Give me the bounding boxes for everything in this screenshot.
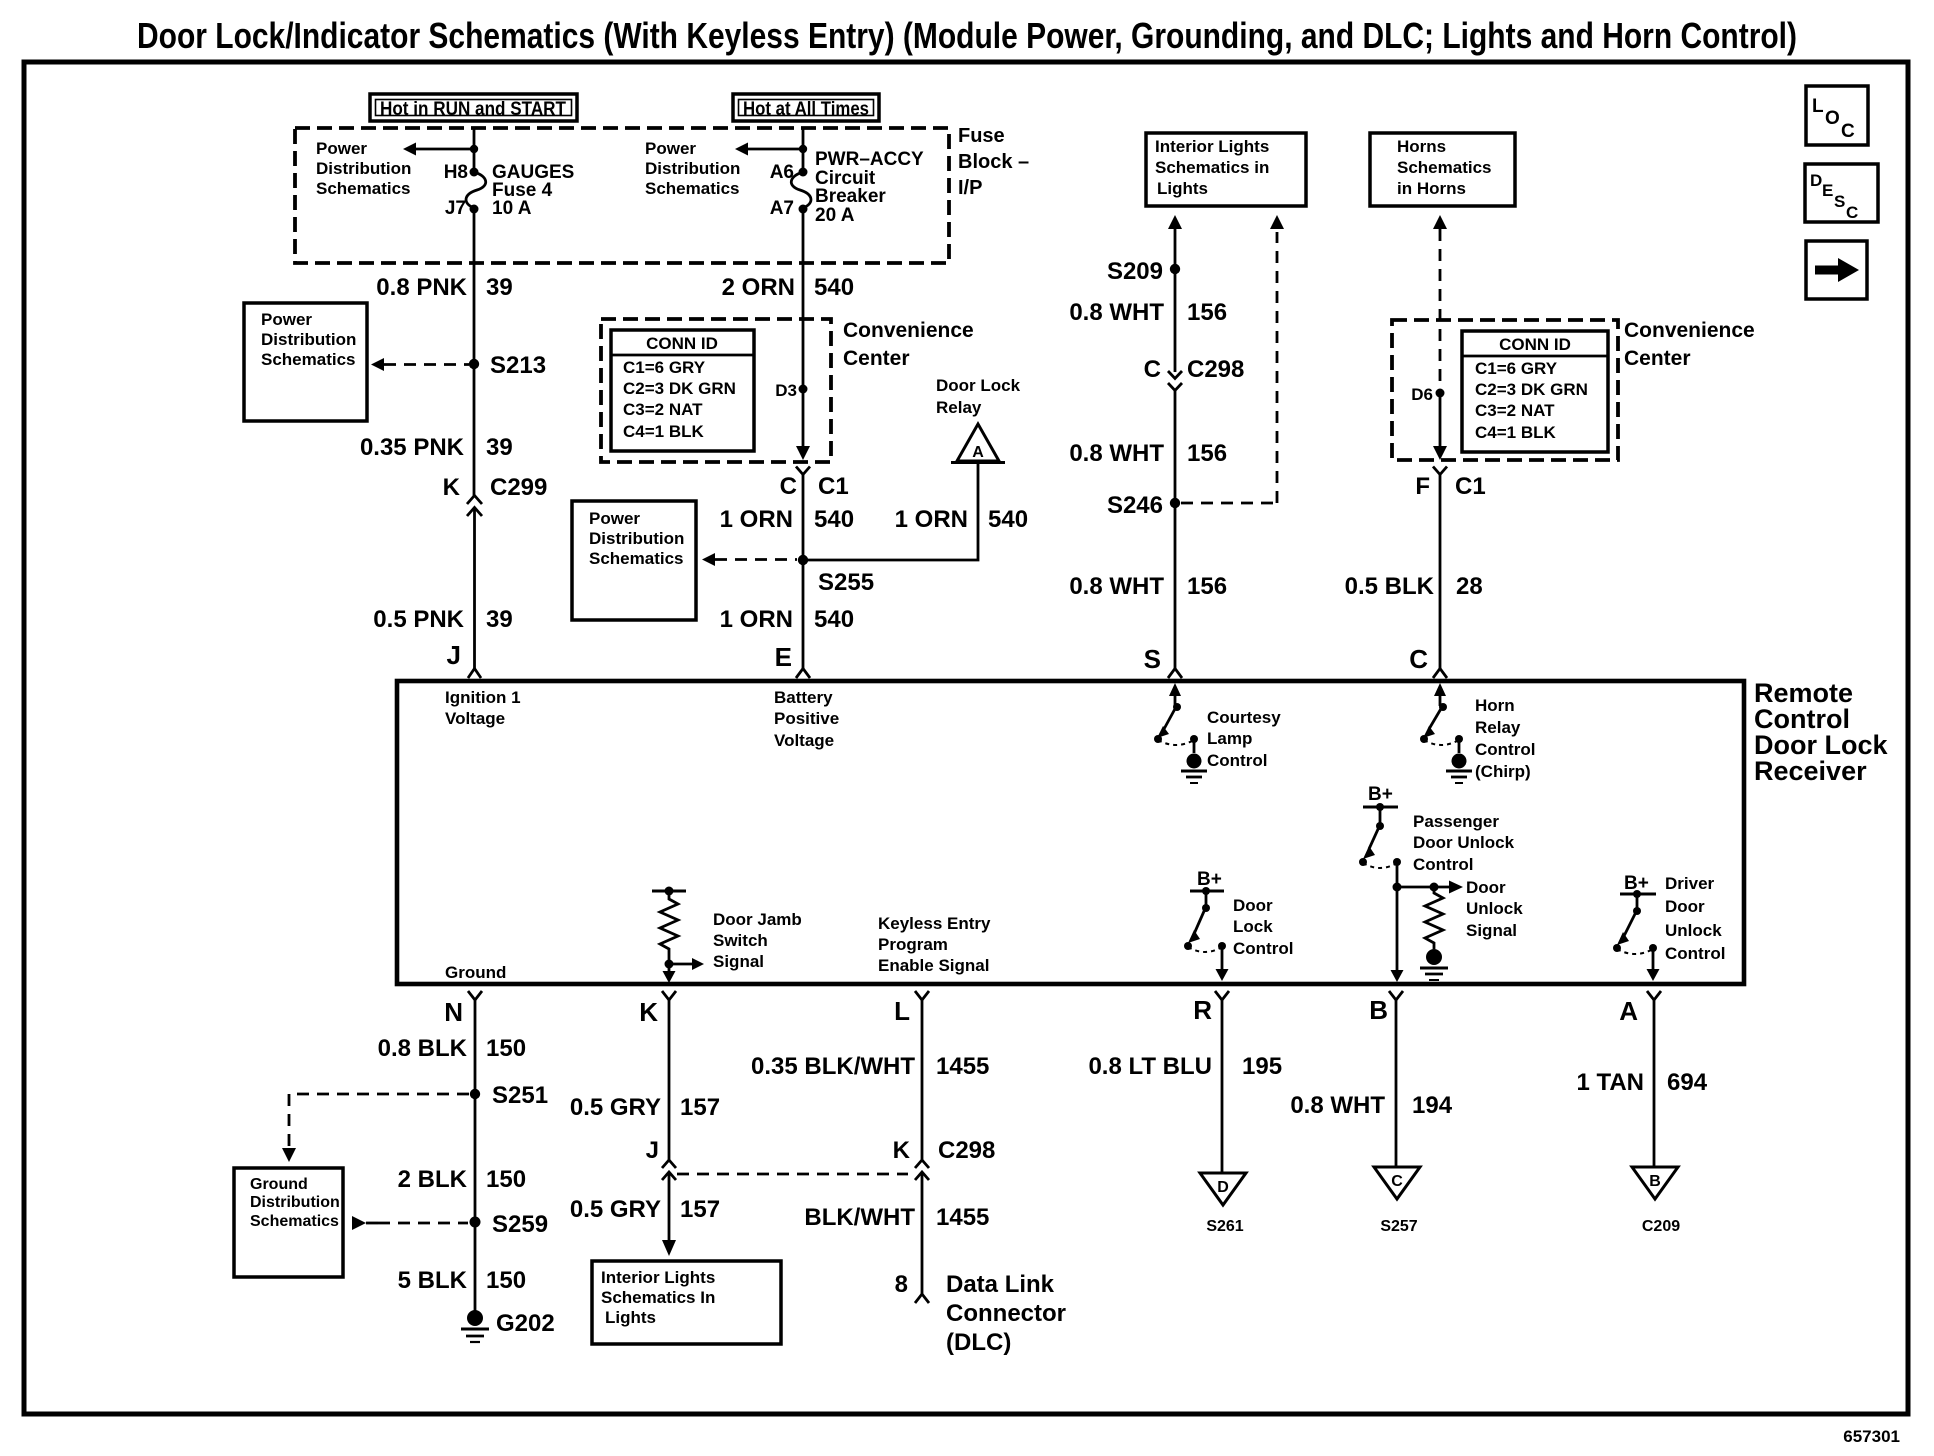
arrow up into horns box (1433, 215, 1447, 229)
svg-text:Control: Control (1207, 751, 1267, 770)
svg-text:S246: S246 (1107, 492, 1163, 519)
dashed link J to K C298 (677, 1173, 908, 1176)
receiver pin L fork (894, 991, 929, 1026)
svg-text:1 TAN: 1 TAN (1576, 1069, 1644, 1096)
connector pin J (lower) (646, 1137, 676, 1180)
svg-text:A: A (972, 444, 984, 461)
svg-text:Ground: Ground (250, 1176, 308, 1193)
ground G202 (461, 1310, 555, 1342)
door jamb switch pull-up and resistor (652, 887, 704, 984)
svg-text:CONN ID: CONN ID (646, 334, 718, 353)
LOC icon box (1806, 86, 1868, 145)
off-page triangle B (C209) (1632, 1167, 1680, 1235)
courtesy lamp control switch (1154, 683, 1198, 753)
svg-text:Hot in RUN and START: Hot in RUN and START (380, 99, 566, 120)
svg-text:H8: H8 (444, 162, 468, 183)
driver door unlock control text (1665, 874, 1725, 963)
svg-text:Ignition 1: Ignition 1 (445, 688, 521, 707)
connector C299 pin K (443, 474, 548, 516)
svg-text:C209: C209 (1642, 1218, 1680, 1235)
svg-text:Door: Door (1466, 878, 1506, 897)
svg-text:C3=2 NAT: C3=2 NAT (623, 400, 703, 419)
svg-text:156: 156 (1187, 299, 1227, 326)
svg-text:K: K (893, 1137, 911, 1164)
dashed wire horns box to D6 (1439, 229, 1442, 389)
svg-text:195: 195 (1242, 1053, 1282, 1080)
svg-text:G202: G202 (496, 1310, 555, 1337)
svg-text:657301: 657301 (1843, 1427, 1900, 1446)
svg-text:Signal: Signal (1466, 921, 1517, 940)
svg-text:R: R (1193, 995, 1212, 1025)
ground (horn relay) (1446, 754, 1472, 784)
Interior Lights Schematics In Lights box (bottom) (592, 1261, 781, 1344)
label 0.8 WHT 156 (2) (1069, 440, 1227, 467)
dashed arrow S255 to power distribution box (702, 553, 797, 566)
left power distribution arrow (403, 143, 478, 156)
svg-text:20 A: 20 A (815, 205, 855, 226)
svg-text:Schematics In: Schematics In (601, 1288, 715, 1307)
label 0.8 WHT 156 (3) (1069, 573, 1227, 600)
svg-text:C4=1 BLK: C4=1 BLK (623, 422, 704, 441)
svg-text:S209: S209 (1107, 258, 1163, 285)
svg-text:Interior Lights: Interior Lights (1155, 137, 1269, 156)
svg-text:A7: A7 (770, 198, 794, 219)
svg-text:156: 156 (1187, 440, 1227, 467)
svg-text:C4=1 BLK: C4=1 BLK (1475, 423, 1556, 442)
svg-text:Schematics: Schematics (250, 1213, 339, 1230)
Horns Schematics box (1370, 133, 1515, 206)
connector C298 pin K (bottom) (893, 1137, 996, 1180)
svg-text:Center: Center (1624, 347, 1691, 370)
splice S255 (798, 555, 808, 565)
door unlock signal arrow and resistor (1393, 881, 1464, 950)
svg-text:157: 157 (680, 1094, 720, 1121)
svg-text:Lamp: Lamp (1207, 729, 1252, 748)
arrow up into interior lights box (right) (1270, 215, 1284, 229)
receiver pin B fork (1369, 991, 1403, 1025)
wire A to triangle B (1653, 1000, 1656, 1167)
svg-text:194: 194 (1412, 1092, 1453, 1119)
svg-text:540: 540 (988, 506, 1028, 533)
svg-text:Battery: Battery (774, 688, 833, 707)
splice S246 (1170, 498, 1180, 508)
svg-text:Block –: Block – (958, 151, 1029, 173)
svg-text:Schematics: Schematics (1397, 158, 1492, 177)
receiver pin J connector (447, 640, 481, 678)
svg-text:(DLC): (DLC) (946, 1329, 1011, 1356)
door lock relay triangle A (951, 424, 1005, 463)
svg-text:C1=6 GRY: C1=6 GRY (623, 358, 706, 377)
svg-text:Control: Control (1233, 939, 1293, 958)
Remote Control Door Lock Receiver label (1754, 678, 1888, 786)
svg-text:Convenience: Convenience (1624, 319, 1755, 342)
dashed arrow S213 to power distribution box (371, 358, 469, 371)
wire J connector down to interior lights arrow (668, 1172, 671, 1240)
svg-text:K: K (639, 997, 658, 1027)
svg-text:D3: D3 (775, 381, 797, 400)
splice S251 (470, 1089, 480, 1099)
door lock control switch (B+) (1184, 869, 1229, 981)
svg-text:Door Unlock: Door Unlock (1413, 833, 1515, 852)
courtesy lamp control text (1207, 708, 1281, 770)
svg-text:Power: Power (589, 509, 640, 528)
svg-text:Hot at All Times: Hot at All Times (743, 99, 869, 120)
svg-text:Distribution: Distribution (316, 159, 411, 178)
svg-text:Convenience: Convenience (843, 319, 974, 342)
svg-text:Enable Signal: Enable Signal (878, 956, 989, 975)
label 0.35 PNK 39 (360, 434, 513, 461)
receiver pin E connector (775, 642, 810, 678)
svg-text:J: J (646, 1137, 659, 1164)
svg-text:C: C (1409, 644, 1428, 674)
svg-text:Schematics: Schematics (645, 179, 740, 198)
svg-text:Passenger: Passenger (1413, 812, 1499, 831)
svg-text:39: 39 (486, 274, 513, 301)
svg-text:1455: 1455 (936, 1053, 989, 1080)
svg-text:Power: Power (316, 139, 367, 158)
svg-text:1 ORN: 1 ORN (895, 506, 968, 533)
svg-text:C: C (1846, 203, 1858, 222)
DESC icon box (1805, 164, 1878, 222)
door lock control text (1233, 896, 1293, 958)
svg-text:0.8 WHT: 0.8 WHT (1069, 440, 1164, 467)
Data Link Connector text (946, 1271, 1066, 1356)
Convenience Center dashed box (left) (601, 319, 831, 462)
svg-text:Door Lock/Indicator Schematics: Door Lock/Indicator Schematics (With Key… (137, 15, 1797, 56)
svg-text:0.8 LT BLU: 0.8 LT BLU (1088, 1053, 1212, 1080)
svg-text:L: L (894, 996, 910, 1026)
arrow up into interior lights box (left) (1168, 215, 1182, 229)
svg-text:Horn: Horn (1475, 696, 1515, 715)
receiver pin S connector (1144, 644, 1182, 678)
svg-text:2 ORN: 2 ORN (722, 274, 795, 301)
svg-text:150: 150 (486, 1166, 526, 1193)
label 0.5 GRY 157 (upper) (570, 1094, 720, 1121)
wire C1 to receiver pin E (802, 475, 805, 670)
svg-text:Horns: Horns (1397, 137, 1446, 156)
svg-text:39: 39 (486, 606, 513, 633)
svg-text:Control: Control (1413, 855, 1473, 874)
svg-text:Distribution: Distribution (261, 330, 356, 349)
svg-text:Voltage: Voltage (445, 709, 505, 728)
Hot in RUN and START label box (370, 94, 577, 121)
right Power Distribution Schematics text (645, 139, 740, 198)
wire R to triangle D (1221, 1000, 1224, 1173)
label 1 ORN 540 (upper) (720, 506, 854, 533)
svg-text:(Chirp): (Chirp) (1475, 762, 1531, 781)
svg-text:C298: C298 (938, 1137, 995, 1164)
fuse F4 GAUGES 10A (H8/J7) (466, 168, 486, 214)
svg-text:C1: C1 (1455, 473, 1486, 500)
svg-text:Control: Control (1475, 740, 1535, 759)
svg-text:Door: Door (1233, 896, 1273, 915)
svg-text:0.35 PNK: 0.35 PNK (360, 434, 465, 461)
svg-text:A: A (1619, 996, 1638, 1026)
svg-text:C1: C1 (818, 473, 849, 500)
wire B to triangle C (1395, 1000, 1398, 1167)
label 0.5 PNK 39 (373, 606, 512, 633)
svg-text:Door: Door (1665, 897, 1705, 916)
svg-text:B+: B+ (1197, 869, 1222, 890)
label 2 BLK 150 (398, 1166, 526, 1193)
connector C1 pin C fork (780, 467, 849, 501)
svg-text:Door Jamb: Door Jamb (713, 910, 802, 929)
svg-text:Interior Lights: Interior Lights (601, 1268, 715, 1287)
svg-text:Distribution: Distribution (250, 1194, 340, 1211)
svg-text:N: N (444, 997, 463, 1027)
label 0.8 BLK 150 (378, 1035, 526, 1062)
label Fuse Block - I/P (958, 125, 1029, 199)
svg-text:Program: Program (878, 935, 948, 954)
svg-text:0.8 WHT: 0.8 WHT (1290, 1092, 1385, 1119)
svg-text:0.8 WHT: 0.8 WHT (1069, 299, 1164, 326)
svg-text:E: E (1822, 181, 1833, 200)
svg-text:C298: C298 (1187, 356, 1244, 383)
svg-text:Positive: Positive (774, 709, 839, 728)
svg-text:Door Lock: Door Lock (936, 376, 1021, 395)
label 5 BLK 150 (398, 1267, 526, 1294)
svg-text:540: 540 (814, 274, 854, 301)
svg-text:Relay: Relay (1475, 718, 1521, 737)
svg-text:Power: Power (645, 139, 696, 158)
label 0.35 BLK/WHT 1455 (751, 1053, 989, 1080)
svg-text:Switch: Switch (713, 931, 768, 950)
horn relay control text (1475, 696, 1535, 781)
receiver pin R fork (1193, 991, 1229, 1025)
svg-text:S: S (1144, 644, 1161, 674)
ground wire N to G202 (474, 1000, 477, 1311)
svg-text:0.5 GRY: 0.5 GRY (570, 1196, 661, 1223)
wire S255 to door lock relay (803, 462, 978, 560)
label 1 ORN 540 (lower) (720, 606, 854, 633)
svg-text:Breaker: Breaker (815, 186, 886, 207)
Interior Lights Schematics box (1146, 133, 1306, 206)
svg-text:A6: A6 (770, 162, 794, 183)
Power Distribution Schematics box (S255) (572, 501, 696, 620)
svg-text:150: 150 (486, 1267, 526, 1294)
dashed branch S246 to interior lights box (1181, 232, 1277, 503)
svg-text:Center: Center (843, 347, 910, 370)
svg-text:Ground: Ground (445, 963, 506, 982)
label 2 ORN 540 (722, 274, 854, 301)
svg-text:S255: S255 (818, 569, 874, 596)
svg-text:S259: S259 (492, 1211, 548, 1238)
CONN ID table (right) (1462, 331, 1608, 452)
svg-text:0.5 BLK: 0.5 BLK (1345, 573, 1435, 600)
svg-text:1 ORN: 1 ORN (720, 506, 793, 533)
label 0.8 LT BLU 195 (1088, 1053, 1282, 1080)
wire F C1 to receiver pin C (1439, 475, 1442, 670)
svg-text:2 BLK: 2 BLK (398, 1166, 468, 1193)
door jamb switch signal text (713, 910, 802, 971)
svg-text:C2=3 DK GRN: C2=3 DK GRN (1475, 380, 1588, 399)
svg-text:Distribution: Distribution (589, 529, 684, 548)
svg-text:S: S (1834, 192, 1845, 211)
svg-text:Schematics: Schematics (261, 350, 356, 369)
svg-text:I/P: I/P (958, 177, 982, 199)
node D3 (799, 385, 808, 394)
svg-text:CONN ID: CONN ID (1499, 335, 1571, 354)
svg-text:Unlock: Unlock (1665, 921, 1722, 940)
svg-text:28: 28 (1456, 573, 1483, 600)
wire C298 to receiver pin S (1174, 391, 1177, 670)
svg-text:Voltage: Voltage (774, 731, 834, 750)
node D6 (1436, 389, 1445, 398)
receiver pin N fork (444, 991, 482, 1027)
wire fuse to S213 (473, 209, 476, 496)
off-page triangle D (S261) (1200, 1173, 1246, 1235)
fuse block I/P dashed box (295, 128, 949, 263)
svg-text:E: E (775, 642, 792, 672)
left Power Distribution Schematics text (316, 139, 411, 198)
passenger door unlock switch (B+) (1359, 784, 1401, 887)
svg-text:0.8 BLK: 0.8 BLK (378, 1035, 468, 1062)
ground (door unlock signal) (1420, 949, 1448, 980)
svg-text:Keyless Entry: Keyless Entry (878, 914, 991, 933)
svg-text:0.8 PNK: 0.8 PNK (376, 274, 467, 301)
svg-text:Courtesy: Courtesy (1207, 708, 1281, 727)
svg-text:Schematics: Schematics (316, 179, 411, 198)
svg-text:K: K (443, 474, 461, 501)
svg-text:Fuse: Fuse (958, 125, 1005, 147)
arrow icon box (1806, 241, 1867, 299)
svg-text:C1=6 GRY: C1=6 GRY (1475, 359, 1558, 378)
svg-text:D6: D6 (1411, 385, 1433, 404)
svg-text:Connector: Connector (946, 1300, 1066, 1327)
wire C299 to receiver pin J (473, 508, 476, 669)
svg-text:Driver: Driver (1665, 874, 1715, 893)
svg-text:39: 39 (486, 434, 513, 461)
door unlock signal text (1466, 878, 1523, 940)
receiver internal pin labels (445, 688, 521, 728)
breaker value labels (815, 149, 924, 226)
fuse value labels (492, 162, 574, 219)
svg-text:C: C (1144, 356, 1161, 383)
svg-text:S213: S213 (490, 352, 546, 379)
wire passenger switch to pin B with arrow (1391, 887, 1404, 982)
svg-text:Distribution: Distribution (645, 159, 740, 178)
wire D6 to box bottom (1439, 393, 1442, 450)
circuit breaker PWR-ACCY 20A (A6/A7) (791, 168, 811, 214)
svg-text:PWR–ACCY: PWR–ACCY (815, 149, 924, 170)
Hot at All Times label box (733, 94, 879, 121)
svg-text:S251: S251 (492, 1082, 548, 1109)
Convenience Center label (right) (1624, 319, 1755, 370)
wire breaker down to convenience center (802, 209, 805, 456)
svg-text:0.35 BLK/WHT: 0.35 BLK/WHT (751, 1053, 915, 1080)
svg-text:5 BLK: 5 BLK (398, 1267, 468, 1294)
label 0.8 WHT 156 (1) (1069, 299, 1227, 326)
receiver pin K fork (639, 991, 676, 1027)
svg-text:0.8 WHT: 0.8 WHT (1069, 573, 1164, 600)
svg-text:Power: Power (261, 310, 312, 329)
off-page triangle C (S257) (1374, 1167, 1420, 1235)
svg-text:0.5 PNK: 0.5 PNK (373, 606, 464, 633)
svg-text:10 A: 10 A (492, 198, 532, 219)
svg-text:Schematics in: Schematics in (1155, 158, 1269, 177)
svg-text:0.5 GRY: 0.5 GRY (570, 1094, 661, 1121)
label 1 TAN 694 (1576, 1069, 1707, 1096)
svg-text:BLK/WHT: BLK/WHT (804, 1204, 915, 1231)
svg-text:J7: J7 (445, 198, 466, 219)
svg-text:540: 540 (814, 606, 854, 633)
svg-text:157: 157 (680, 1196, 720, 1223)
wire L to K C298 connector (921, 1000, 924, 1160)
svg-text:Lights: Lights (605, 1308, 656, 1327)
Convenience Center dashed box (right) (1392, 320, 1618, 460)
Power Distribution Schematics box (S213) (244, 303, 367, 421)
svg-text:Unlock: Unlock (1466, 899, 1523, 918)
svg-text:S257: S257 (1380, 1218, 1417, 1235)
right power distribution arrow (735, 143, 807, 156)
wire arrow to C298 (1174, 229, 1177, 372)
driver door unlock switch (B+) (1613, 873, 1660, 981)
arrow into right convenience box bottom (1433, 446, 1447, 460)
CONN ID table (left) (611, 330, 754, 451)
svg-text:S261: S261 (1206, 1218, 1243, 1235)
svg-text:F: F (1415, 473, 1430, 500)
svg-text:D: D (1217, 1179, 1229, 1196)
svg-text:D: D (1810, 171, 1822, 190)
svg-text:1 ORN: 1 ORN (720, 606, 793, 633)
Ground Distribution Schematics box (234, 1168, 343, 1277)
svg-text:156: 156 (1187, 573, 1227, 600)
label 0.5 BLK 28 (1345, 573, 1483, 600)
svg-text:Lights: Lights (1157, 179, 1208, 198)
Convenience Center label (left) (843, 319, 974, 370)
svg-text:C3=2 NAT: C3=2 NAT (1475, 401, 1555, 420)
passenger door unlock control text (1413, 812, 1515, 874)
label BLK/WHT 1455 (804, 1204, 989, 1231)
label 0.5 GRY 157 (lower) (570, 1196, 720, 1223)
svg-text:C2=3 DK GRN: C2=3 DK GRN (623, 379, 736, 398)
svg-text:Lock: Lock (1233, 917, 1273, 936)
Door Lock Relay label (936, 376, 1021, 417)
svg-text:Data Link: Data Link (946, 1271, 1055, 1298)
svg-text:8: 8 (895, 1271, 908, 1298)
svg-text:C299: C299 (490, 474, 547, 501)
arrow into convenience box bottom (796, 446, 810, 460)
svg-text:B: B (1369, 995, 1388, 1025)
receiver pin A fork (1619, 991, 1661, 1026)
ground (courtesy lamp) (1181, 754, 1207, 784)
svg-text:Relay: Relay (936, 398, 982, 417)
dashed branch S251 to ground distribution box (282, 1094, 469, 1162)
label 0.8 PNK 39 (376, 274, 512, 301)
connector C298 pin C (1144, 356, 1245, 391)
wire K to J connector (668, 1000, 671, 1160)
svg-text:Control: Control (1665, 944, 1725, 963)
svg-text:in Horns: in Horns (1397, 179, 1466, 198)
svg-text:C: C (1841, 121, 1855, 142)
wire from dashed box top to breaker (802, 128, 805, 172)
svg-text:L: L (1812, 96, 1824, 117)
label 0.8 WHT 194 (1290, 1092, 1452, 1119)
svg-text:B+: B+ (1368, 784, 1393, 805)
svg-text:150: 150 (486, 1035, 526, 1062)
svg-text:1455: 1455 (936, 1204, 989, 1231)
svg-text:Schematics: Schematics (589, 549, 684, 568)
svg-text:O: O (1825, 108, 1840, 129)
svg-text:Signal: Signal (713, 952, 764, 971)
wire from dashed box top to fuse (473, 128, 476, 172)
svg-text:C: C (780, 473, 797, 500)
svg-text:694: 694 (1667, 1069, 1708, 1096)
wire K C298 to DLC pin 8 (921, 1172, 924, 1294)
Remote Control Door Lock Receiver box (397, 681, 1744, 984)
dashed arrow ground distribution box to S259 (352, 1216, 468, 1230)
receiver pin C connector (1409, 644, 1447, 678)
